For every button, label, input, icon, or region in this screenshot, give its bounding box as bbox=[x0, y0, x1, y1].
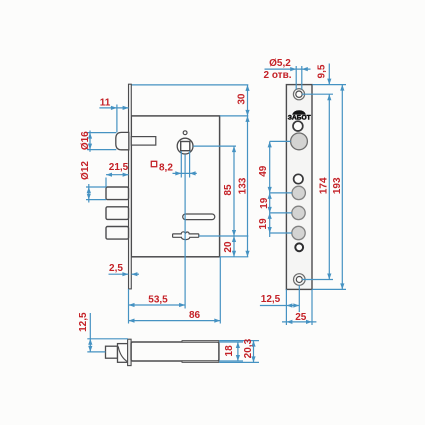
ext side latch center bbox=[87, 351, 105, 353]
arrow dim 86 right bbox=[214, 319, 220, 323]
svg-text:12,5: 12,5 bbox=[261, 294, 281, 305]
arrow dim 9,5 top bbox=[327, 79, 331, 85]
svg-text:ЗАБОТ: ЗАБОТ bbox=[288, 114, 312, 121]
svg-text:2,5: 2,5 bbox=[109, 263, 123, 274]
dim 25 line bbox=[282, 321, 316, 323]
arrow dim 85 top bbox=[232, 146, 236, 152]
arrow dim 2,5 right bbox=[131, 272, 137, 276]
plate outline bbox=[286, 85, 312, 290]
arrow dim 8,2 left bbox=[175, 171, 181, 175]
logo bbox=[292, 110, 306, 114]
latch tip side bbox=[106, 346, 118, 358]
hole small 2 bbox=[294, 174, 303, 183]
arrow dim 18 top bbox=[236, 342, 240, 348]
arrow dim 174 bottom bbox=[327, 274, 331, 280]
dim 12,5 vertical bbox=[89, 313, 91, 352]
arrow dim 20,3 bottom bbox=[251, 356, 255, 362]
arrow dim 11 right bbox=[123, 106, 129, 110]
dim 12,5 br line bbox=[260, 305, 299, 307]
arrow dim O16 bottom bbox=[88, 144, 92, 150]
arrow dim O16 top bbox=[88, 133, 92, 139]
arrow dim 21,5 left bbox=[106, 173, 112, 177]
svg-text:18: 18 bbox=[224, 345, 235, 357]
label square symbol 8,2 bbox=[151, 161, 156, 166]
ext side rail bottom bbox=[219, 361, 259, 363]
latch bevel curve bbox=[118, 346, 127, 361]
dim O16 bbox=[87, 132, 116, 134]
arrow dim 25 left bbox=[286, 320, 292, 324]
ext body top right bbox=[220, 115, 249, 117]
arrow dim 19b top bbox=[268, 213, 272, 219]
wire: extension line top (30 dim reference from faceplate top) bbox=[129, 84, 249, 86]
ext spindle center right bbox=[193, 145, 236, 147]
dims side view bbox=[87, 313, 259, 362]
slot bbox=[183, 214, 215, 220]
svg-text:2 отв.: 2 отв. bbox=[263, 70, 291, 81]
arrow dim 53,5 right bbox=[179, 303, 185, 307]
svg-text:53,5: 53,5 bbox=[148, 294, 168, 305]
arrow dim 49 top bbox=[268, 141, 272, 147]
svg-text:49: 49 bbox=[258, 165, 269, 177]
gray hole E bbox=[292, 226, 305, 239]
svg-text:19: 19 bbox=[259, 197, 270, 209]
svg-text:174: 174 bbox=[319, 177, 330, 194]
arrow dim O5,2 left bbox=[290, 67, 296, 71]
svg-text:30: 30 bbox=[237, 93, 248, 105]
svg-text:19: 19 bbox=[258, 218, 269, 230]
ext top hole center bbox=[302, 93, 333, 95]
ext bottom hole center bbox=[302, 279, 333, 281]
arrow dim 12,5 br right bbox=[293, 303, 299, 307]
arrow dim 53,5 left bbox=[129, 303, 135, 307]
arrow dim 18 bottom bbox=[236, 355, 240, 361]
arrow dim 19a bottom bbox=[268, 207, 272, 213]
dim O5,2 line bbox=[265, 68, 311, 70]
faceplate side bar bbox=[128, 339, 132, 365]
top rail bbox=[182, 341, 219, 343]
latch bar inside body bbox=[131, 137, 156, 146]
lock body outline bbox=[131, 116, 219, 257]
svg-text:9,5: 9,5 bbox=[317, 64, 328, 78]
arrow dim 21,5 right bbox=[123, 173, 129, 177]
dim 11 line bbox=[99, 107, 128, 109]
arrow dim 86 left bbox=[129, 319, 135, 323]
dim 9,5 + 174 vertical bbox=[328, 64, 330, 85]
svg-text:85: 85 bbox=[223, 184, 234, 196]
arrow dim 30 bottom bbox=[245, 110, 249, 116]
arrow dim 12,5 top bbox=[88, 339, 92, 345]
arrow dim 11 left bbox=[111, 106, 117, 110]
svg-text:8,2: 8,2 bbox=[159, 162, 173, 173]
deadbolt 1 bbox=[106, 187, 129, 200]
svg-text:21,5: 21,5 bbox=[109, 162, 129, 173]
arrow dim 2,5 left bbox=[122, 272, 128, 276]
ext plate bottom right bbox=[312, 288, 346, 290]
labels right view bbox=[258, 58, 343, 323]
arrow dim 9,5 bottom / 174 top bbox=[327, 94, 331, 100]
arrow dim 30 top bbox=[245, 85, 249, 91]
gray hole D bbox=[292, 206, 305, 219]
arrow dim 19b bottom bbox=[268, 227, 272, 233]
small pin hole bbox=[183, 131, 187, 135]
deadbolt 2 bbox=[106, 207, 129, 220]
ext side faceplate top bbox=[87, 338, 128, 340]
arrow dim 25 right bbox=[306, 320, 312, 324]
svg-text:11: 11 bbox=[100, 98, 111, 109]
dims right view bbox=[260, 64, 346, 326]
dim 53,5 bbox=[129, 304, 186, 306]
svg-text:193: 193 bbox=[332, 177, 343, 194]
deadbolt 3 bbox=[106, 227, 129, 240]
arrow dim 8,2 right bbox=[190, 171, 196, 175]
spindle square 8.2 bbox=[181, 142, 190, 151]
arrow dim 20,3 top bbox=[251, 341, 255, 347]
dim 86 bbox=[129, 320, 221, 322]
arrow dim 133 top bbox=[245, 116, 249, 122]
dim 18 vertical bbox=[237, 342, 239, 361]
dim 20,3 vertical bbox=[253, 341, 255, 363]
arrow dim 12,5 br left bbox=[286, 303, 292, 307]
centerline from spindle bbox=[184, 154, 186, 308]
spindle circle bbox=[177, 138, 193, 154]
dim 49/19/19 vertical bbox=[269, 141, 271, 237]
svg-text:133: 133 bbox=[238, 177, 249, 194]
cylinder hole big bbox=[291, 133, 308, 150]
ext faceplate left down bbox=[128, 289, 130, 324]
arrows main view bbox=[87, 85, 250, 323]
bottom rail bbox=[182, 361, 219, 363]
arrow dim 20 bottom bbox=[232, 251, 236, 257]
dim 30 / 133 vertical bbox=[247, 85, 249, 257]
arrow dim 19a top bbox=[268, 193, 272, 199]
ext side rail top bbox=[219, 340, 259, 342]
arrow dim 193 top bbox=[340, 85, 344, 91]
arrow dim 133 bottom bbox=[245, 251, 249, 257]
arrow dim 12,5 bottom bbox=[88, 346, 92, 352]
ext plate top right bbox=[312, 84, 346, 86]
dim 21,5 bbox=[106, 174, 129, 176]
ext body right down bbox=[219, 257, 221, 324]
svg-text:20,3: 20,3 bbox=[243, 338, 254, 358]
arrow dim O12 bottom bbox=[87, 194, 91, 200]
lever cam bbox=[173, 232, 199, 240]
hole small ring F bbox=[295, 243, 303, 251]
dim 2,5 bbox=[109, 273, 129, 275]
faceplate (edge view) bbox=[129, 84, 132, 289]
latch body side bbox=[118, 344, 129, 363]
dim O12 bbox=[86, 186, 106, 188]
top screw hole bbox=[293, 89, 304, 100]
arrow dim 85 bottom bbox=[232, 230, 236, 236]
labels main view bbox=[80, 93, 249, 321]
svg-text:Ø5,2: Ø5,2 bbox=[269, 58, 291, 69]
arrow dim 193 bottom bbox=[340, 283, 344, 289]
hole small 1 bbox=[293, 121, 303, 131]
svg-text:86: 86 bbox=[189, 310, 201, 321]
dim 193 vertical bbox=[341, 85, 343, 290]
ext body bottom right bbox=[220, 256, 249, 258]
arrow dim 20 top bbox=[232, 236, 236, 242]
svg-text:20: 20 bbox=[223, 241, 234, 253]
arrow dim 49 bottom bbox=[268, 187, 272, 193]
latch bolt (front) bbox=[116, 132, 129, 149]
ext side body top bbox=[219, 341, 243, 343]
body side bbox=[131, 342, 219, 361]
ext side body bottom bbox=[219, 360, 243, 362]
arrow dim O5,2 right bbox=[302, 67, 308, 71]
ext bottom hole center down bbox=[298, 285, 300, 312]
bottom screw hole bbox=[294, 274, 306, 286]
gray hole C bbox=[292, 186, 305, 199]
svg-text:Ø16: Ø16 bbox=[80, 131, 91, 150]
svg-text:12,5: 12,5 bbox=[78, 312, 89, 332]
ext lever center right bbox=[199, 235, 248, 237]
svg-text:25: 25 bbox=[295, 312, 307, 323]
dim 85 / 20 vertical bbox=[233, 146, 235, 257]
svg-text:Ø12: Ø12 bbox=[80, 161, 91, 180]
dim 8,2 bbox=[173, 172, 197, 174]
arrow dim O12 top bbox=[87, 187, 91, 193]
